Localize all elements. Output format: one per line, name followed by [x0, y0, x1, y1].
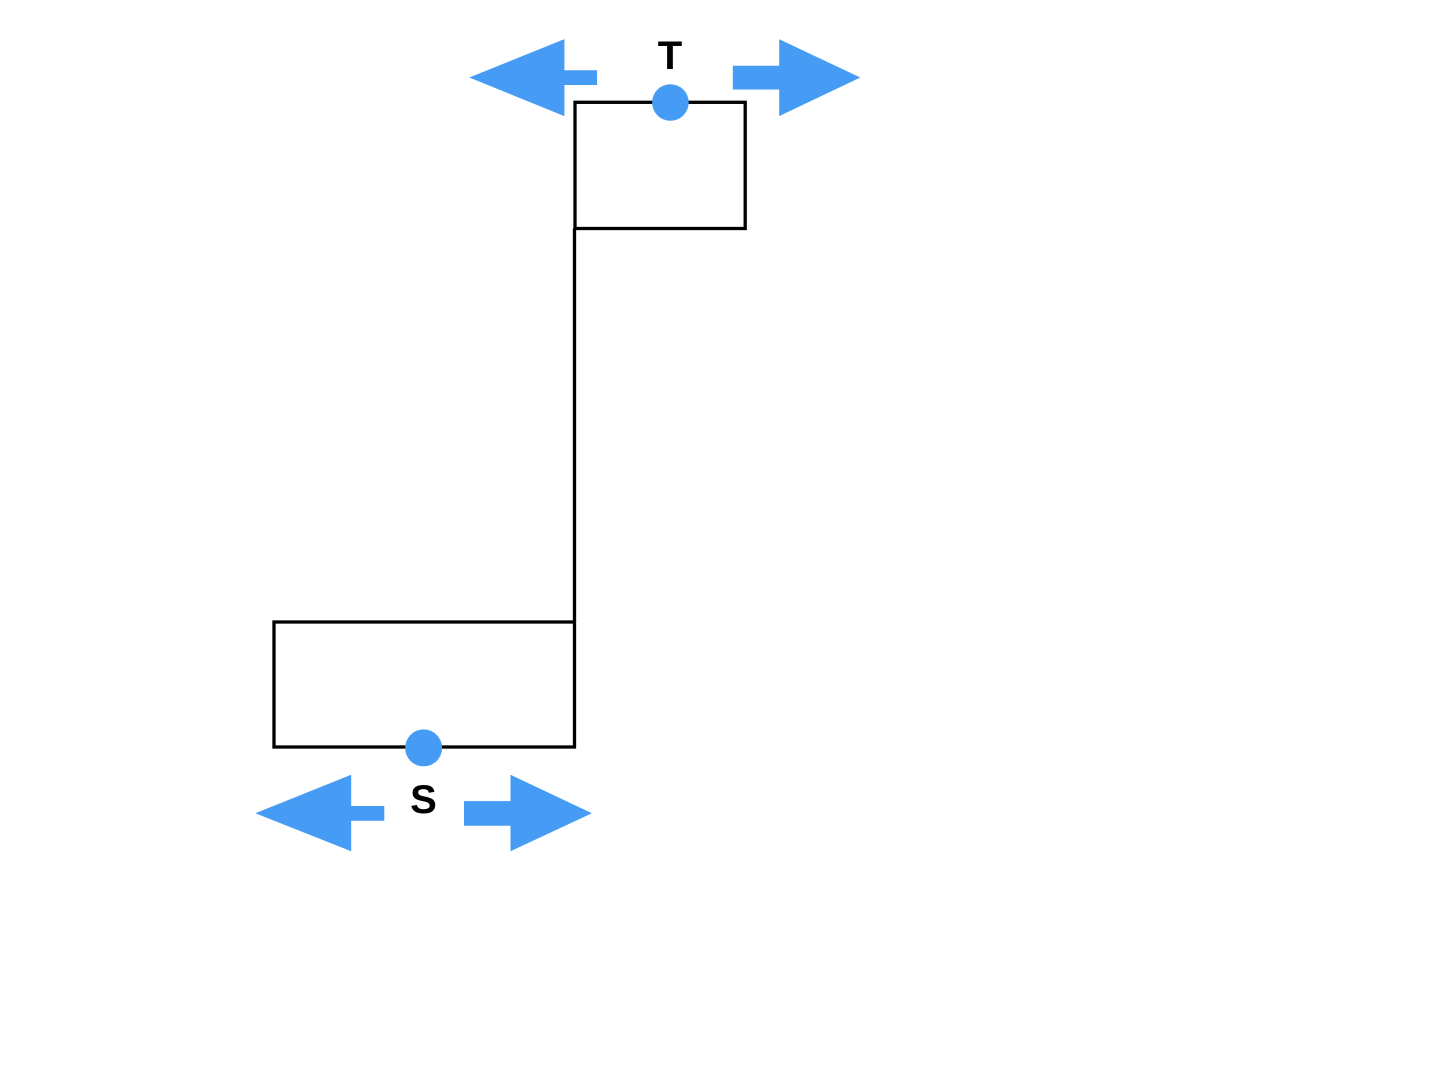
rectangle S (bottom block outline) — [274, 622, 575, 747]
arrow right at S — [464, 775, 592, 851]
arrow left at S — [255, 775, 384, 851]
arrow left at T — [469, 39, 597, 116]
wire (vertical connector line from top block to bottom block) — [573, 229, 576, 623]
svg-text:T: T — [658, 34, 682, 78]
svg-text:S: S — [410, 778, 437, 822]
arrow right at T — [733, 39, 861, 116]
rectangle T (top block outline) — [575, 102, 745, 228]
node T (blue dot on top edge of top block) — [652, 84, 689, 121]
node S (blue dot on bottom edge of bottom block) — [405, 729, 442, 766]
